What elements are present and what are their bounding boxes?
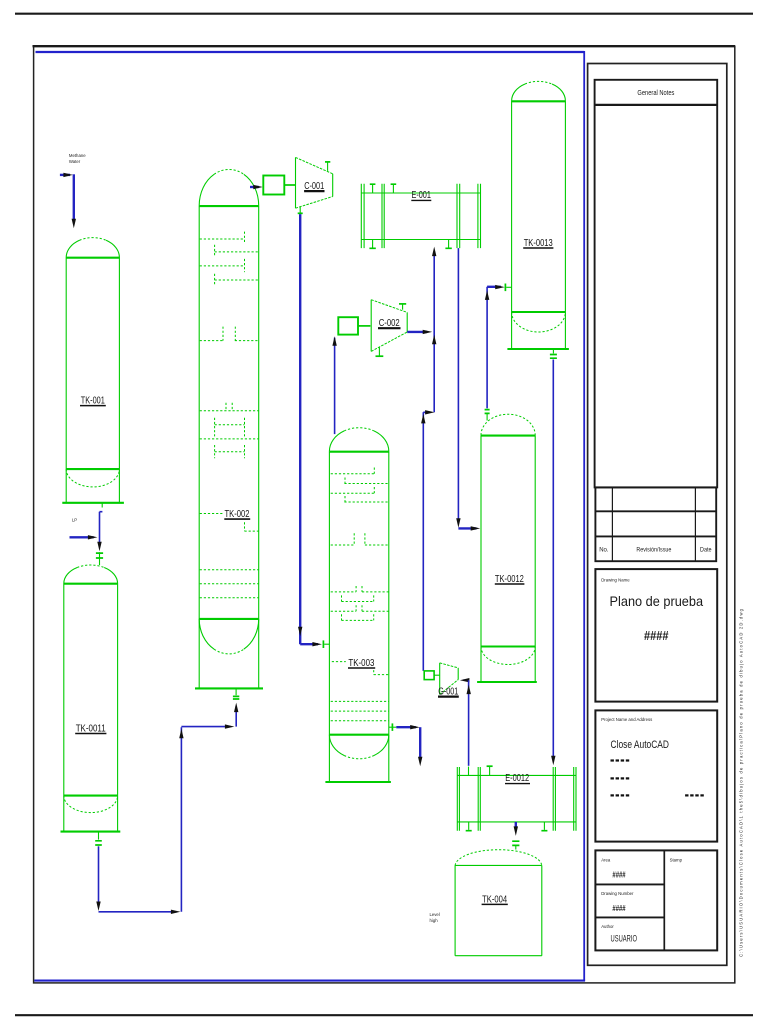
wire TK-0011 bottoms to TK-002 [98, 846, 100, 903]
wire G-001 discharge riser [423, 412, 430, 671]
wire main riser to E-001 [433, 256, 435, 412]
svg-text:Methane: Methane [69, 153, 86, 158]
trays TK-002 [200, 232, 259, 598]
filter box C-002 suction [338, 317, 358, 334]
valve TK-0011 inlet [96, 553, 103, 558]
exchanger E-001 [361, 184, 480, 249]
general notes box [595, 80, 718, 488]
trays TK-003 [331, 468, 390, 721]
svg-text:TK-004: TK-004 [482, 893, 507, 905]
wire TK-0013 bottoms to E-0012 [552, 360, 554, 757]
tank TK-001 [62, 238, 124, 503]
svg-text:Drawing Name: Drawing Name [601, 577, 630, 582]
svg-text:Author: Author [601, 924, 614, 929]
svg-text:TK-002: TK-002 [225, 508, 250, 520]
tank TK-004 [455, 850, 542, 956]
svg-text:TK-0012: TK-0012 [495, 573, 524, 585]
column TK-003 [325, 428, 391, 782]
svg-text:Area: Area [601, 857, 611, 862]
project name box [595, 710, 717, 841]
compressor G-001 [424, 663, 459, 698]
svg-text:C:\Users\USUARIO\Documents\Clo: C:\Users\USUARIO\Documents\Close AutoCAD… [739, 608, 744, 957]
valve TK-0013 left nozzle [504, 284, 506, 292]
wire TK-001 bottoms to TK-0011 [101, 503, 103, 508]
svg-text:TK-001: TK-001 [81, 395, 105, 407]
wire C-001 discharge to TK-003 [300, 214, 318, 644]
valve TK-003 left feed nozzle [322, 640, 324, 648]
drawing name box [595, 569, 717, 702]
node Methane/Water feed label [69, 153, 86, 164]
filter box C-001 suction [263, 176, 284, 195]
svg-text:Project Name and Address: Project Name and Address [601, 717, 652, 722]
valve TK-0013 bottom outlet [552, 349, 554, 353]
valve TK-0012 top [485, 410, 490, 414]
valve TK-004 inlet [512, 841, 519, 845]
svg-text:####: #### [612, 903, 625, 913]
wire C-002 discharge [407, 331, 427, 333]
wire E-0012 bottoms to TK-004 [515, 822, 517, 830]
wire TK-003 overhead to C-002 [334, 338, 336, 435]
compressor C-002 [371, 300, 407, 357]
svg-text:General Notes: General Notes [637, 90, 674, 97]
svg-text:E-001: E-001 [411, 189, 431, 201]
info box [595, 850, 717, 950]
exchanger E-0012 [457, 766, 576, 831]
blue drawing border [36, 51, 585, 53]
valve TK-0011 bottom outlet [98, 832, 100, 840]
column TK-002 [195, 169, 263, 688]
svg-text:Date: Date [700, 548, 712, 554]
tank TK-0011 [61, 565, 121, 832]
wire methane feed [60, 174, 70, 176]
svg-text:E-0012: E-0012 [505, 772, 529, 784]
svg-text:LP: LP [72, 518, 77, 523]
revision table [595, 487, 716, 561]
bottom page rule [15, 1014, 753, 1016]
tank TK-0012 [477, 414, 537, 682]
svg-text:####: #### [644, 629, 669, 643]
svg-text:Close AutoCAD: Close AutoCAD [611, 739, 670, 751]
svg-text:high: high [430, 918, 439, 923]
svg-text:Drawing Number: Drawing Number [601, 891, 634, 896]
tank TK-0013 [507, 81, 569, 349]
compressor C-001 [296, 157, 333, 213]
wire E-001 outlet to TK-0012 [457, 248, 459, 521]
svg-text:TK-003: TK-003 [348, 657, 374, 669]
wire TK-002 overhead to C-001 [250, 186, 259, 188]
svg-text:Water: Water [69, 159, 81, 164]
svg-text:Revisión/Issue: Revisión/Issue [636, 548, 672, 554]
valve TK-002 bottom [235, 688, 237, 695]
svg-text:No.: No. [599, 548, 609, 554]
svg-text:TK-0011: TK-0011 [76, 722, 106, 734]
title block outer border [588, 64, 727, 966]
svg-text:Level: Level [430, 912, 440, 917]
svg-text:TK-0013: TK-0013 [524, 237, 553, 249]
wire E-0012 vapor to G-001 [463, 679, 469, 681]
svg-text:Stamp: Stamp [670, 857, 683, 862]
svg-text:####: #### [612, 869, 625, 879]
wire TK-0012 overhead to TK-0013 [487, 286, 501, 288]
svg-text:Plano de prueba: Plano de prueba [610, 593, 704, 609]
svg-text:USUARIO: USUARIO [611, 934, 638, 945]
wire TK-003 side outlet [391, 723, 393, 731]
top page rule [15, 13, 753, 15]
